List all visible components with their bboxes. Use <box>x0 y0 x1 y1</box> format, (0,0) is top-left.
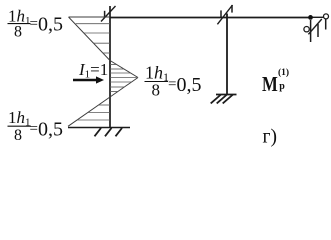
svg-text:I1=1: I1=1 <box>78 60 108 81</box>
svg-text:г): г) <box>263 126 278 147</box>
svg-text:0,5: 0,5 <box>177 74 202 96</box>
svg-text:0,5: 0,5 <box>38 119 63 141</box>
svg-text:8: 8 <box>152 81 161 100</box>
svg-text:=: = <box>30 121 38 137</box>
svg-text:=: = <box>168 77 176 93</box>
svg-text:8: 8 <box>14 127 22 144</box>
svg-text:M: M <box>262 72 278 96</box>
svg-text:8: 8 <box>14 24 22 41</box>
svg-text:0,5: 0,5 <box>38 14 63 36</box>
svg-text:=: = <box>30 16 38 32</box>
svg-text:(1): (1) <box>278 67 289 78</box>
svg-text:p: p <box>279 81 285 92</box>
